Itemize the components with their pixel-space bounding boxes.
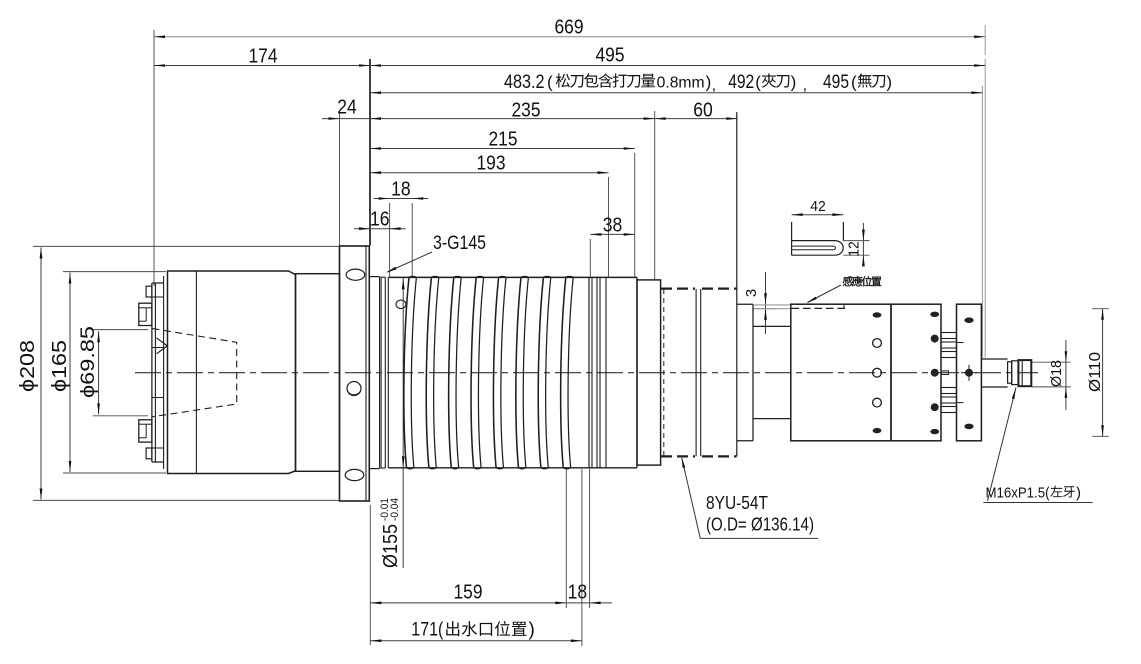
dim text phi165 bbox=[49, 340, 71, 392]
svg-text:ϕ208: ϕ208 bbox=[17, 340, 39, 392]
dimension phi69.85 bbox=[98, 331, 100, 414]
centerline main axis bbox=[135, 372, 1038, 374]
svg-text:M16xP1.5(: M16xP1.5( bbox=[986, 485, 1050, 502]
motor rear connector top bbox=[139, 303, 152, 325]
leader M16 bbox=[988, 388, 1017, 502]
front end plate phi110 bbox=[957, 304, 982, 441]
svg-text:174: 174 bbox=[249, 46, 278, 68]
svg-text:193: 193 bbox=[477, 153, 506, 175]
hidden connector trapezoid (dashed) bbox=[153, 329, 237, 417]
svg-text:8YU-54T: 8YU-54T bbox=[706, 493, 768, 513]
dimension 193 bbox=[370, 172, 609, 174]
dimension 235 bbox=[370, 118, 655, 120]
svg-text:24: 24 bbox=[337, 97, 357, 119]
motor rear plate bbox=[151, 283, 153, 462]
terminal comb center tick bbox=[941, 371, 949, 375]
extension line right end x985 (gray) bbox=[984, 25, 986, 55]
svg-text:ϕ69.85: ϕ69.85 bbox=[78, 326, 99, 398]
svg-text:(: ( bbox=[851, 73, 857, 92]
sensor position dashed line bbox=[792, 307, 846, 309]
extension line x370 bottom bbox=[369, 505, 371, 645]
dimension 3 bbox=[765, 272, 767, 334]
extension line x339.5 bbox=[339, 111, 341, 246]
dim text phi110 bbox=[1087, 352, 1104, 392]
gear 8YU-54T dashed outline bbox=[661, 288, 695, 290]
dimension 669 bbox=[154, 36, 985, 38]
svg-text:483.2: 483.2 bbox=[504, 72, 545, 93]
svg-text:18: 18 bbox=[568, 582, 588, 604]
dimension 16 bbox=[354, 228, 406, 230]
svg-text:,: , bbox=[712, 77, 716, 94]
svg-text:215: 215 bbox=[489, 128, 518, 150]
svg-text:ϕ165: ϕ165 bbox=[49, 340, 71, 392]
dimension phi18 bbox=[1065, 340, 1067, 410]
dimension phi110 bbox=[1102, 309, 1104, 437]
sensor gap lines (gray) bbox=[754, 304, 790, 306]
G1/4 port hole on sleeve bbox=[396, 300, 406, 308]
svg-text:): ) bbox=[886, 73, 892, 92]
dimension phi155 vertical bbox=[402, 278, 404, 568]
dim text phi18 bbox=[1048, 360, 1065, 387]
dim text 3 bbox=[743, 289, 760, 297]
dimension 42 bbox=[792, 214, 844, 216]
svg-text:159: 159 bbox=[454, 582, 483, 604]
svg-text:): ) bbox=[706, 73, 712, 92]
extension lines bottom grooves bbox=[565, 469, 567, 608]
extension line flange face x370 bbox=[369, 59, 371, 246]
motor body phi165 bbox=[168, 271, 296, 474]
svg-text:18: 18 bbox=[391, 179, 411, 201]
dimension 12 bbox=[862, 223, 864, 267]
svg-text:Ø18: Ø18 bbox=[1048, 360, 1065, 387]
svg-text:495: 495 bbox=[823, 72, 849, 93]
svg-text:16: 16 bbox=[370, 209, 390, 231]
svg-text:3-G145: 3-G145 bbox=[433, 233, 486, 254]
dim text phi69.85 bbox=[78, 326, 99, 398]
extension line x634.7 bbox=[634, 153, 636, 277]
svg-text:669: 669 bbox=[555, 16, 584, 38]
shaft washer bbox=[1008, 362, 1012, 383]
svg-text:42: 42 bbox=[810, 198, 826, 215]
drawbar nut M16 bbox=[1018, 360, 1031, 386]
rear plate bottom tab bbox=[146, 448, 152, 459]
sensor housing block bbox=[791, 304, 891, 441]
motor rear connector bottom bbox=[139, 420, 152, 442]
svg-text:12: 12 bbox=[846, 241, 863, 257]
leader 8YU-54T bbox=[682, 458, 701, 538]
dimension 483.2 row bbox=[370, 92, 982, 94]
dim text phi208 bbox=[17, 340, 39, 392]
svg-text:-0.04: -0.04 bbox=[389, 498, 401, 521]
svg-text:,: , bbox=[803, 77, 807, 94]
connector ring dots bbox=[930, 312, 939, 317]
sleeve grooves bbox=[588, 277, 590, 467]
gear right edge / extension bbox=[736, 112, 738, 456]
extension line x654.7 bbox=[654, 111, 656, 280]
svg-text:(O.D= Ø136.14): (O.D= Ø136.14) bbox=[706, 515, 814, 535]
collar ring 1 bbox=[369, 276, 379, 278]
dimension 24 bbox=[322, 118, 372, 120]
extension line left end x154 bbox=[153, 30, 155, 286]
cooling sleeve phi155 body bbox=[388, 276, 637, 278]
extension lines 18 bbox=[389, 203, 391, 277]
spindle neck 2 bbox=[753, 325, 791, 327]
collar ring 2 bbox=[381, 276, 385, 278]
svg-text:60: 60 bbox=[693, 100, 713, 122]
dimension 18 bottom bbox=[566, 602, 612, 604]
dimension 18 top bbox=[374, 198, 429, 200]
svg-text:(: ( bbox=[755, 73, 761, 92]
svg-text:Ø155: Ø155 bbox=[380, 524, 402, 568]
leader sensor position bbox=[808, 285, 842, 303]
svg-text:235: 235 bbox=[512, 100, 541, 122]
motor body seam bbox=[195, 271, 197, 474]
dimension phi165 bbox=[69, 273, 71, 473]
dimension 38 bbox=[590, 233, 634, 235]
sleeve end edge bbox=[636, 277, 638, 467]
svg-text:495: 495 bbox=[596, 45, 625, 67]
svg-text:38: 38 bbox=[603, 214, 623, 236]
flange hole middle with arc bbox=[347, 382, 361, 396]
svg-text:3: 3 bbox=[743, 289, 760, 297]
svg-text:): ) bbox=[791, 73, 797, 92]
end plate hole top bbox=[964, 317, 973, 323]
dim text phi155 with tolerance bbox=[379, 498, 402, 568]
flange hole bottom bbox=[345, 469, 364, 480]
dimension 171 bbox=[370, 640, 582, 642]
flange hole top bbox=[346, 269, 365, 280]
dimension 159 bbox=[370, 602, 566, 604]
end plate hole bottom bbox=[964, 424, 973, 430]
label sensor position CJK bbox=[843, 276, 881, 286]
svg-text:): ) bbox=[1076, 485, 1081, 502]
terminal comb upper bbox=[941, 333, 957, 339]
gear groove bbox=[695, 289, 697, 456]
tool shaft bbox=[981, 358, 1007, 360]
svg-text:0.8mm: 0.8mm bbox=[657, 75, 705, 92]
dimension 60 bbox=[655, 118, 738, 120]
svg-text:(: ( bbox=[547, 73, 553, 92]
front bearing ring bbox=[637, 280, 661, 465]
svg-text:171(: 171( bbox=[411, 620, 444, 641]
dimension phi208 bbox=[40, 248, 42, 500]
svg-text:): ) bbox=[529, 620, 535, 641]
extension line x608.5 bbox=[608, 177, 610, 277]
rear plate top tab bbox=[146, 286, 152, 297]
leader 3-G145 bbox=[388, 252, 433, 272]
dimension 174 bbox=[154, 65, 370, 67]
dimension 215 bbox=[370, 148, 635, 150]
dim text 12 bbox=[846, 241, 863, 257]
connector ring block bbox=[891, 304, 941, 441]
extension line x590.3 bbox=[589, 239, 591, 277]
spindle neck 1 bbox=[737, 303, 753, 305]
svg-text:492: 492 bbox=[728, 72, 754, 93]
mounting flange phi208 bbox=[340, 246, 370, 501]
svg-text:Ø110: Ø110 bbox=[1087, 352, 1104, 392]
spiral cooling fins bbox=[404, 277, 409, 467]
dimension 495 bbox=[370, 65, 985, 67]
rear cable cone detail bbox=[157, 338, 168, 354]
terminal comb lower bbox=[941, 388, 957, 394]
end plate center mark bbox=[965, 369, 973, 377]
sensor block holes bbox=[873, 312, 882, 317]
motor front neck bbox=[296, 274, 340, 472]
